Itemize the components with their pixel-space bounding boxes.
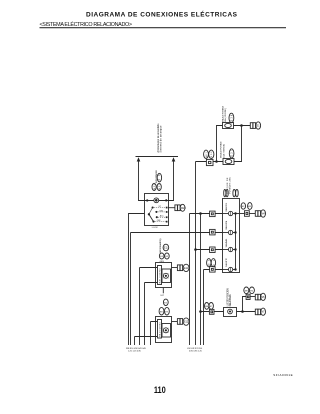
wire switch ACC out, down left — [129, 214, 145, 346]
svg-text:HALOGENO: HALOGENO — [158, 268, 161, 284]
svg-text:R/B R/L G/W G/R G/B: R/B R/L G/W G/R G/B — [126, 348, 146, 350]
svg-text:HALOGENO: HALOGENO — [158, 321, 161, 337]
node bus B+ — [136, 156, 179, 158]
connector square on feed row — [206, 159, 213, 165]
connector square row1 — [210, 211, 216, 217]
svg-text:1.25 1.25 0.85: 1.25 1.25 0.85 — [128, 351, 142, 353]
svg-text:ENLACE FUSIBLE: ENLACE FUSIBLE — [220, 141, 223, 158]
fuse F1 — [223, 123, 234, 129]
wire — [201, 311, 224, 313]
wire switch output to connector — [168, 207, 175, 209]
svg-text:E3: E3 — [164, 302, 167, 304]
fuse F2 oval 37 — [229, 149, 234, 158]
arrow left (page ref) — [137, 157, 141, 161]
wire H1 out — [172, 267, 178, 269]
connector ovals — [205, 303, 209, 310]
header rule — [40, 27, 287, 29]
svg-text:15A LUZ TR: 15A LUZ TR — [225, 257, 228, 267]
svg-text:110: 110 — [154, 384, 166, 395]
svg-text:E37: E37 — [232, 149, 234, 156]
ignition switch SW1 box — [145, 194, 169, 226]
connector ovals pair lower — [159, 307, 164, 315]
wire J/B row1 output — [240, 213, 256, 215]
svg-text:E11: E11 — [164, 248, 169, 250]
fuse block internal bus — [235, 214, 237, 270]
svg-text:M77: M77 — [206, 151, 208, 157]
svg-text:M9: M9 — [245, 290, 249, 292]
svg-text:M7: M7 — [261, 312, 265, 314]
fuse block row 3 — [223, 249, 229, 251]
svg-text:<SISTEMA ELÉCTRICO RELACIONADO: <SISTEMA ELÉCTRICO RELACIONADO> — [40, 21, 133, 28]
svg-text:E8: E8 — [160, 311, 163, 313]
fuse block row 1: fuse circle — [223, 213, 229, 215]
switch position labels — [157, 206, 165, 222]
wire row 4 feed — [204, 270, 223, 346]
svg-text:IGN: IGN — [160, 210, 164, 212]
svg-text:SFIA0361E: SFIA0361E — [273, 373, 292, 377]
connector ovals on feed row — [204, 150, 209, 158]
switch position dashes — [154, 208, 166, 222]
svg-text:ST: ST — [159, 206, 162, 208]
svg-text:E11: E11 — [184, 267, 189, 270]
connector square row3 — [210, 247, 216, 253]
wire — [250, 296, 255, 298]
headlamp H2 box — [156, 317, 172, 343]
tail lamp row — [199, 310, 202, 313]
wire F1 out to junction — [234, 125, 251, 127]
wire branch up — [243, 297, 247, 312]
svg-text:10A LAVAD.: 10A LAVAD. — [225, 238, 228, 247]
junction — [199, 212, 202, 215]
connector ovals pair — [159, 253, 164, 259]
svg-text:M33: M33 — [159, 183, 161, 189]
svg-text:30A (VERDE): 30A (VERDE) — [224, 108, 227, 122]
switch internal B+ row — [145, 200, 169, 202]
svg-text:M1: M1 — [209, 259, 211, 265]
svg-text:10A LIMPIA: 10A LIMPIA — [225, 220, 228, 230]
svg-text:E36: E36 — [231, 114, 233, 121]
wire lamp out — [237, 311, 256, 313]
wire row 3 feed — [196, 249, 223, 251]
wire — [169, 161, 174, 201]
connector E11 out — [177, 265, 180, 271]
svg-text:E2: E2 — [213, 259, 215, 265]
svg-text:E17: E17 — [161, 295, 164, 297]
connector square row4 — [210, 267, 216, 273]
headlamp H1 box — [156, 263, 172, 288]
connector square row2 — [210, 229, 216, 235]
connector upper branch — [255, 294, 257, 300]
connector oval E11 top — [163, 244, 169, 251]
fuse block row 4 — [223, 269, 229, 271]
wire in row B — [135, 337, 158, 346]
svg-text:38: 38 — [158, 174, 161, 181]
wire in row B — [145, 283, 158, 346]
connector E1 — [250, 123, 253, 129]
fuse F1 oval 36 — [229, 113, 234, 123]
fuse block connector ovals — [224, 189, 226, 196]
svg-text:LOCK: LOCK — [152, 227, 158, 229]
wire riser to fuse F1 — [217, 126, 223, 162]
wire row ACC feed — [190, 214, 223, 346]
svg-text:FARO DELANT. IZQ.: FARO DELANT. IZQ. — [159, 238, 162, 253]
svg-text:10A ACCES.: 10A ACCES. — [225, 202, 228, 211]
svg-text:E6: E6 — [250, 290, 253, 292]
ground stub H1 — [162, 288, 164, 294]
fuse block J/B box — [223, 199, 240, 273]
connector E12 out — [177, 319, 180, 325]
connector square — [209, 309, 214, 314]
wire feed row to fuses — [196, 162, 224, 346]
connector ovals M32 M33 — [152, 183, 156, 190]
lamp symbol H1 — [163, 273, 168, 278]
fuse block circuit labels (vertical) — [225, 202, 228, 267]
switch wiper — [149, 214, 154, 221]
connector M28 — [175, 205, 178, 211]
svg-text:(HID): (HID) — [160, 261, 165, 263]
svg-text:DIAGRAMA DE CONEXIONES ELÉCTRI: DIAGRAMA DE CONEXIONES ELÉCTRICAS — [86, 10, 238, 19]
lamp symbol H2 — [163, 328, 168, 333]
wire in row A — [151, 322, 158, 346]
connector M4 — [255, 211, 257, 217]
svg-text:ACC: ACC — [160, 215, 165, 218]
svg-text:DELANTERA: DELANTERA — [229, 294, 232, 306]
svg-text:FUSIBLES (J/B): FUSIBLES (J/B) — [230, 177, 232, 193]
wire H2 out — [172, 321, 178, 323]
svg-text:M3: M3 — [248, 206, 252, 208]
svg-text:M28: M28 — [181, 207, 186, 210]
wire — [139, 161, 145, 201]
svg-text:Sistema de arranque: Sistema de arranque — [160, 125, 163, 153]
switch contacts — [152, 206, 168, 222]
svg-text:0.85 0.85 1.25: 0.85 0.85 1.25 — [189, 351, 203, 353]
connector oval below H1 — [163, 299, 168, 305]
arrow right (page ref) — [172, 157, 176, 161]
svg-text:M2: M2 — [242, 206, 246, 208]
svg-text:E52: E52 — [211, 151, 213, 157]
connector lower branch — [255, 309, 257, 315]
svg-text:M4: M4 — [261, 213, 265, 216]
svg-text:E12: E12 — [184, 321, 189, 324]
svg-text:E9: E9 — [165, 311, 168, 313]
wire down to F2 out — [234, 126, 242, 162]
wire in row A — [140, 268, 158, 346]
connector oval 38 — [157, 173, 161, 182]
connector ovals row4 — [207, 259, 211, 267]
fuse block row 2 — [223, 232, 229, 234]
connector square output — [245, 211, 250, 217]
connector ovals output — [241, 203, 246, 209]
svg-text:L/W L/R R/Y R/G: L/W L/R R/Y R/G — [187, 348, 203, 350]
svg-text:40A (VERDE): 40A (VERDE) — [222, 144, 225, 158]
lamp L1 box — [224, 308, 237, 317]
wire row to fuse block row2 — [131, 233, 223, 346]
svg-text:M32: M32 — [154, 183, 156, 189]
svg-text:ENLACE FUSIBLE: ENLACE FUSIBLE — [221, 105, 224, 122]
switch rotor contact — [154, 198, 159, 203]
junction — [240, 124, 243, 127]
fuse F2 — [223, 159, 234, 165]
connector square branch — [246, 294, 250, 299]
junction — [241, 310, 244, 313]
svg-text:E7: E7 — [210, 306, 213, 308]
connector ovals branch — [244, 287, 249, 294]
svg-text:E1: E1 — [257, 125, 261, 128]
wire rail C — [200, 214, 202, 346]
junction — [215, 160, 218, 163]
